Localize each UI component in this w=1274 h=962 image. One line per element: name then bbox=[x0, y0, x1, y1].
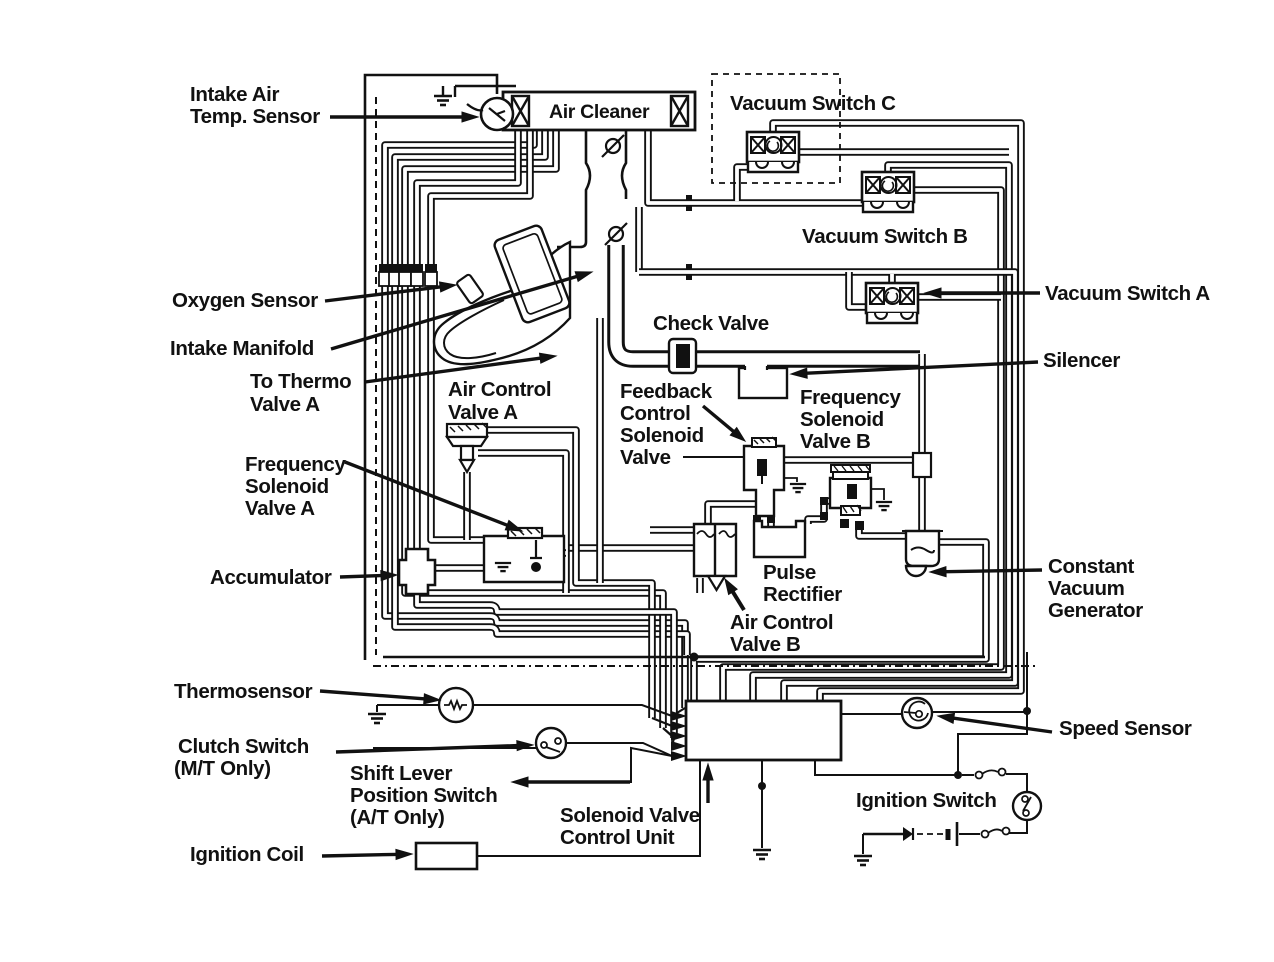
svg-text:Solenoid: Solenoid bbox=[620, 424, 704, 447]
svg-text:Feedback: Feedback bbox=[620, 380, 713, 403]
svg-text:Frequency: Frequency bbox=[800, 386, 901, 409]
svg-text:Rectifier: Rectifier bbox=[763, 583, 842, 606]
svg-text:Vacuum Switch B: Vacuum Switch B bbox=[802, 225, 968, 248]
svg-text:Control Unit: Control Unit bbox=[560, 826, 675, 849]
svg-text:Control: Control bbox=[620, 402, 690, 425]
svg-text:Clutch Switch: Clutch Switch bbox=[178, 735, 309, 758]
svg-text:Speed Sensor: Speed Sensor bbox=[1059, 717, 1192, 740]
svg-text:Ignition Coil: Ignition Coil bbox=[190, 843, 304, 866]
svg-text:Solenoid: Solenoid bbox=[245, 475, 329, 498]
svg-text:Temp. Sensor: Temp. Sensor bbox=[190, 105, 320, 128]
svg-text:Frequency: Frequency bbox=[245, 453, 346, 476]
svg-text:Intake Air: Intake Air bbox=[190, 83, 280, 106]
svg-text:Vacuum Switch A: Vacuum Switch A bbox=[1045, 282, 1210, 305]
svg-text:Silencer: Silencer bbox=[1043, 349, 1120, 372]
svg-text:Check Valve: Check Valve bbox=[653, 312, 769, 335]
svg-text:Generator: Generator bbox=[1048, 599, 1143, 622]
svg-text:Thermosensor: Thermosensor bbox=[174, 680, 313, 703]
svg-text:Vacuum Switch C: Vacuum Switch C bbox=[730, 92, 896, 115]
svg-text:Solenoid Valve: Solenoid Valve bbox=[560, 804, 700, 827]
svg-text:Intake Manifold: Intake Manifold bbox=[170, 337, 314, 360]
svg-text:Ignition Switch: Ignition Switch bbox=[856, 789, 997, 812]
svg-text:Valve A: Valve A bbox=[245, 497, 315, 520]
svg-text:Air Control: Air Control bbox=[730, 611, 833, 634]
svg-text:Accumulator: Accumulator bbox=[210, 566, 332, 589]
svg-text:Valve A: Valve A bbox=[448, 401, 518, 424]
svg-text:Valve B: Valve B bbox=[730, 633, 801, 656]
svg-text:(M/T Only): (M/T Only) bbox=[174, 757, 271, 780]
svg-text:Pulse: Pulse bbox=[763, 561, 816, 584]
svg-text:Vacuum: Vacuum bbox=[1048, 577, 1125, 600]
svg-text:Valve A: Valve A bbox=[250, 393, 320, 416]
svg-text:To Thermo: To Thermo bbox=[250, 370, 351, 393]
svg-text:Air Cleaner: Air Cleaner bbox=[549, 101, 650, 123]
svg-text:Valve B: Valve B bbox=[800, 430, 871, 453]
svg-text:Valve: Valve bbox=[620, 446, 671, 469]
svg-text:Shift Lever: Shift Lever bbox=[350, 762, 452, 785]
svg-text:(A/T Only): (A/T Only) bbox=[350, 806, 444, 829]
svg-text:Constant: Constant bbox=[1048, 555, 1135, 578]
svg-text:Solenoid: Solenoid bbox=[800, 408, 884, 431]
svg-text:Air Control: Air Control bbox=[448, 378, 551, 401]
svg-text:Oxygen Sensor: Oxygen Sensor bbox=[172, 289, 318, 312]
svg-text:Position Switch: Position Switch bbox=[350, 784, 497, 807]
